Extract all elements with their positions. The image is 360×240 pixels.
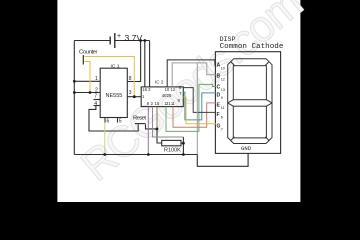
svg-text:Reset: Reset: [133, 116, 146, 122]
svg-text:13: 13: [221, 88, 225, 92]
svg-text:R100K: R100K: [164, 148, 181, 154]
svg-text:6: 6: [107, 119, 110, 125]
svg-text:4: 4: [94, 101, 97, 107]
svg-text:7: 7: [221, 127, 223, 131]
svg-text:Counter: Counter: [79, 50, 98, 56]
svg-text:6: 6: [221, 116, 223, 120]
svg-text:11: 11: [221, 106, 225, 110]
svg-text:IC 2: IC 2: [155, 79, 164, 84]
svg-text:3.7V: 3.7V: [125, 33, 143, 43]
svg-text:GND: GND: [241, 145, 252, 152]
svg-text:12: 12: [221, 78, 225, 82]
svg-text:3: 3: [129, 90, 132, 96]
svg-text:Common Cathode: Common Cathode: [220, 43, 284, 51]
svg-text:7: 7: [94, 94, 97, 100]
svg-text:10: 10: [221, 66, 225, 70]
svg-text:13 1 11: 13 1 11: [164, 101, 175, 106]
svg-text:IC 1: IC 1: [111, 63, 120, 69]
svg-text:F: F: [217, 112, 220, 118]
svg-text:16 3: 16 3: [142, 87, 151, 92]
svg-text:5: 5: [119, 119, 122, 125]
svg-text:+: +: [117, 33, 121, 40]
svg-text:DISP: DISP: [220, 36, 236, 43]
svg-text:9: 9: [221, 96, 223, 100]
svg-text:8 2 15: 8 2 15: [147, 101, 160, 106]
svg-text:2: 2: [95, 87, 98, 93]
svg-text:1: 1: [95, 76, 98, 82]
svg-text:10 12: 10 12: [165, 87, 176, 92]
svg-text:NE555: NE555: [106, 93, 123, 99]
svg-text:8: 8: [129, 76, 132, 82]
svg-text:4026: 4026: [162, 93, 172, 98]
